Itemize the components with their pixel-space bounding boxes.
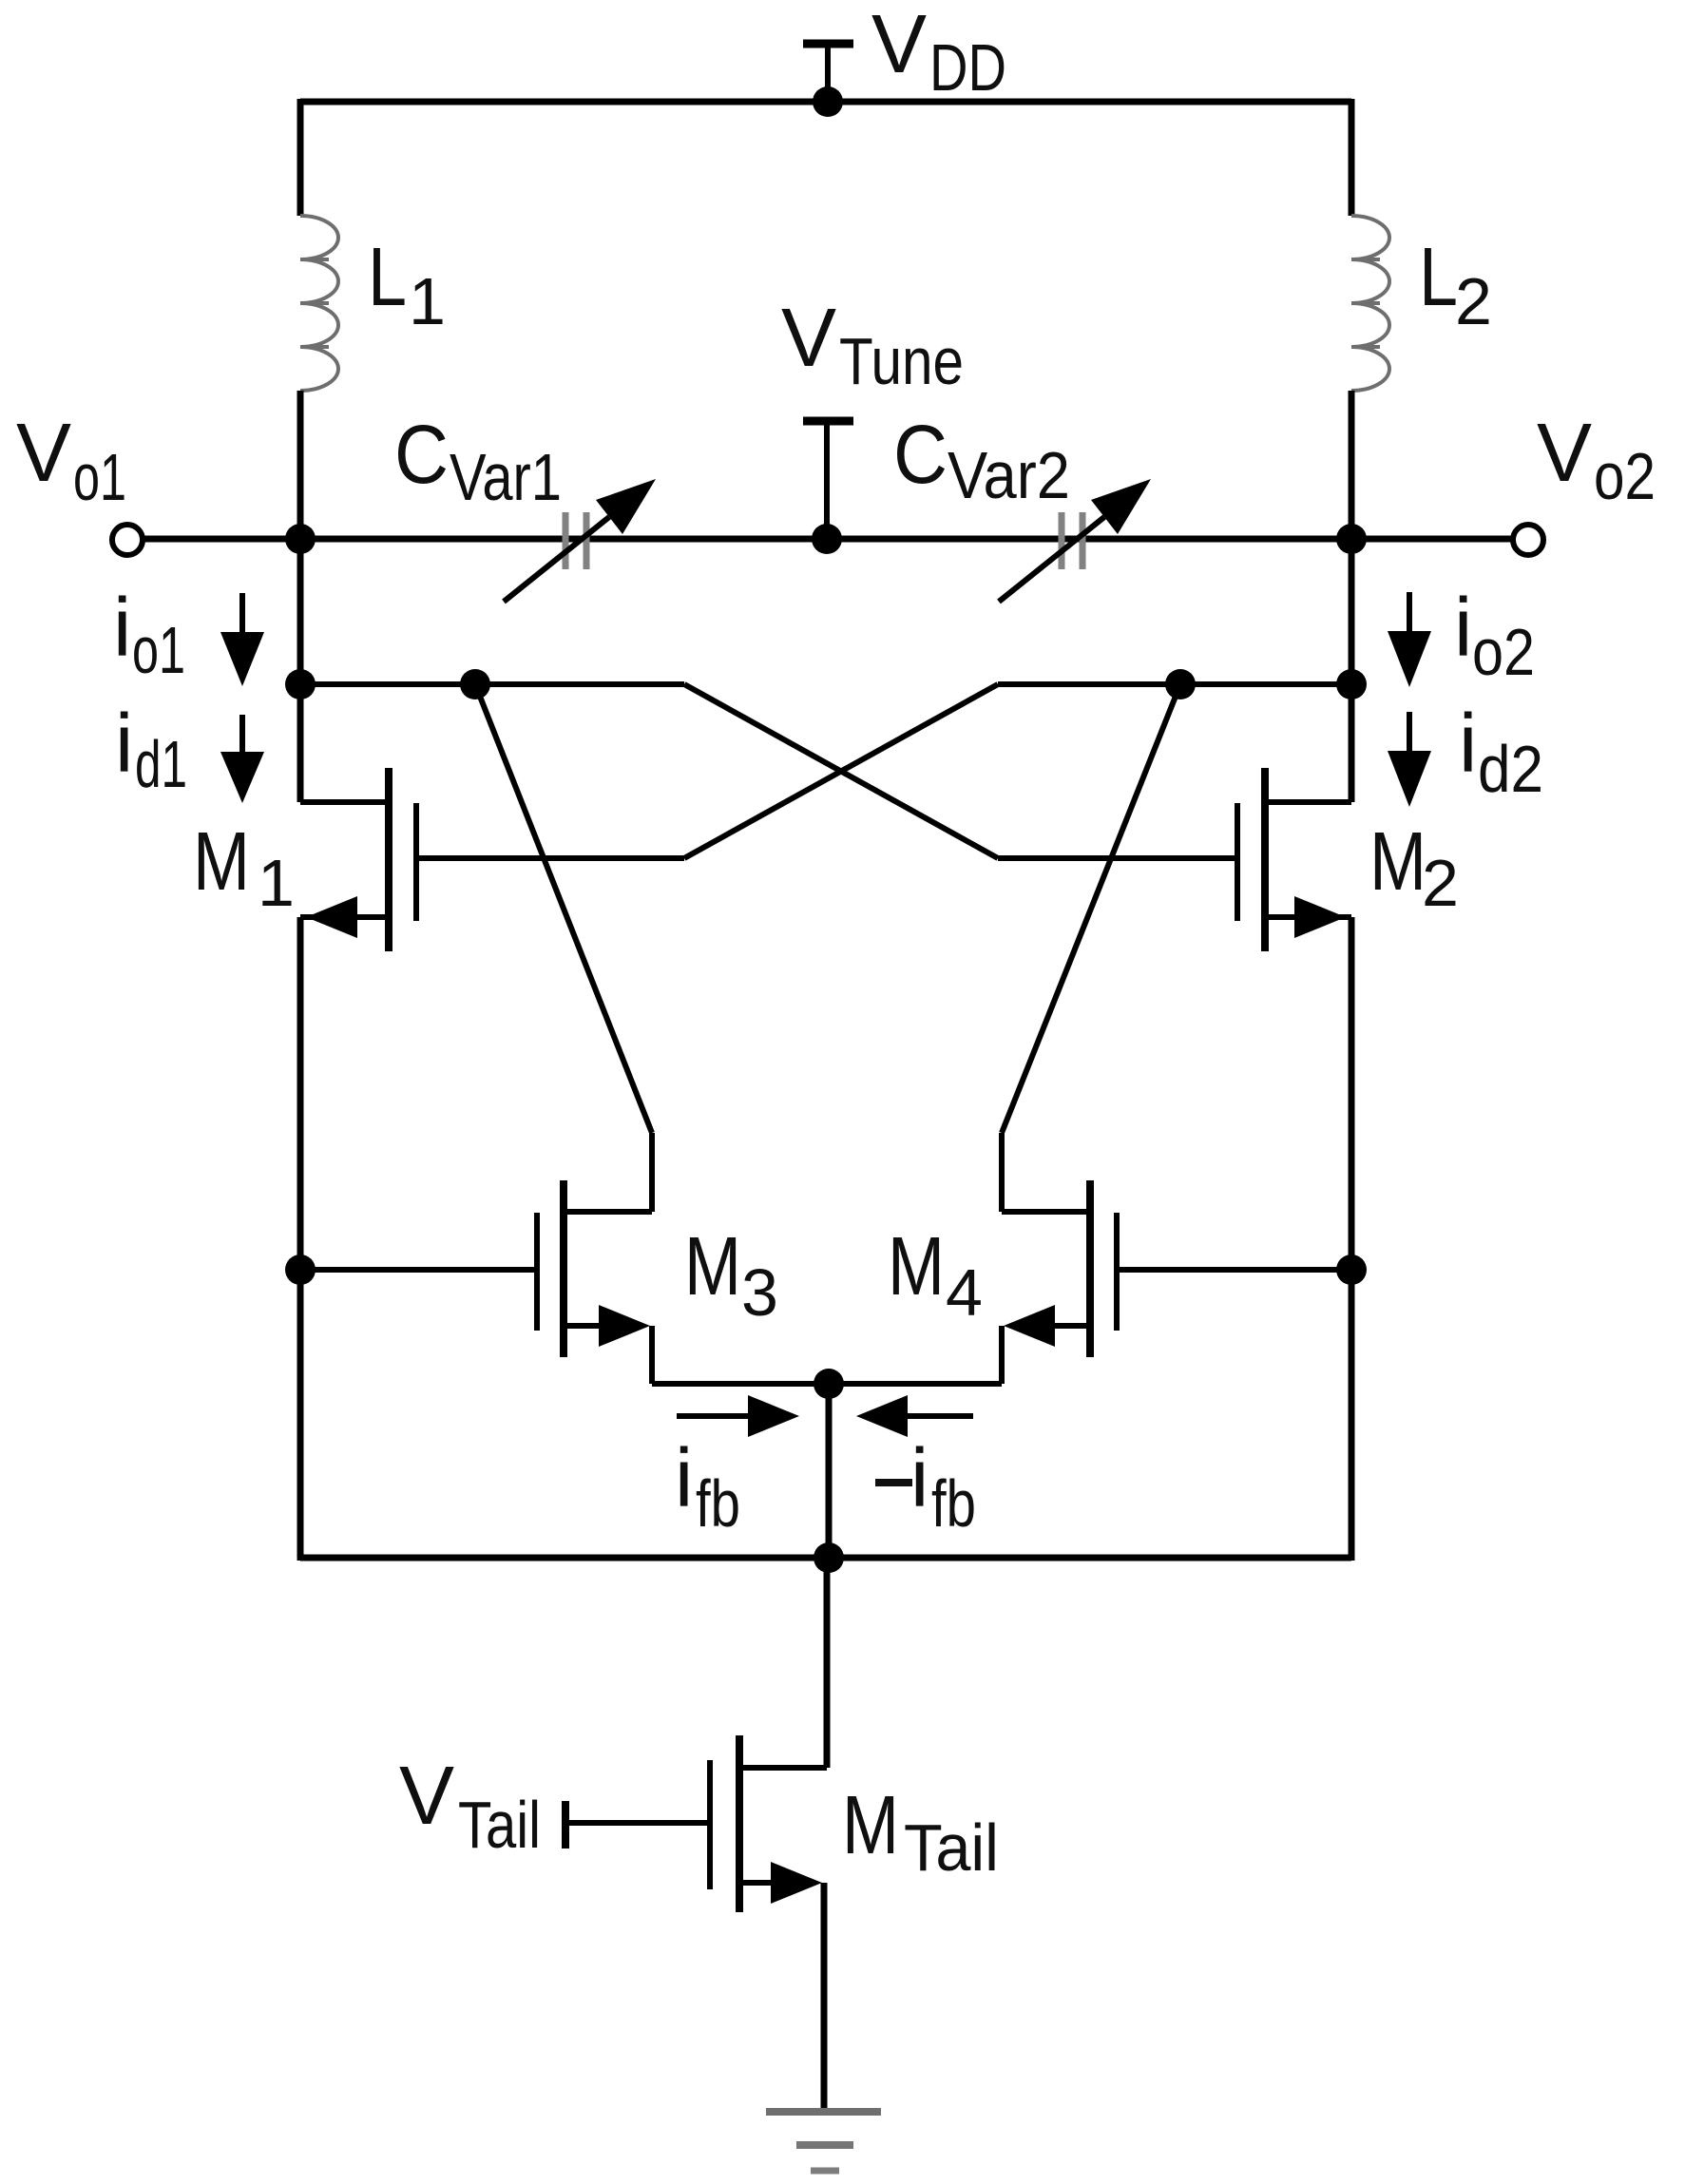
svg-text:Var2: Var2 bbox=[948, 438, 1070, 512]
label L1 bbox=[368, 231, 446, 338]
wire output rail Vo1 to Vo2 bbox=[143, 536, 1513, 543]
svg-text:V: V bbox=[16, 407, 71, 499]
svg-text:L: L bbox=[368, 231, 407, 323]
inductor L2 bbox=[1351, 216, 1389, 391]
svg-text:Tail: Tail bbox=[904, 1810, 999, 1885]
svg-text:3: 3 bbox=[741, 1255, 778, 1330]
label L2 bbox=[1419, 231, 1492, 338]
svg-text:i: i bbox=[1454, 582, 1472, 674]
svg-text:Tune: Tune bbox=[839, 324, 964, 398]
svg-text:Var1: Var1 bbox=[450, 440, 562, 514]
node Vo2 column junction bbox=[1336, 524, 1367, 554]
capacitor CVar1 arrow bbox=[504, 479, 656, 602]
wire drain bus left bbox=[300, 681, 684, 687]
label VTail bbox=[399, 1750, 541, 1862]
node left feedback tap bbox=[460, 669, 490, 699]
wire tail node vertical bbox=[826, 1384, 833, 1558]
wire right branch lower bbox=[1349, 391, 1355, 542]
svg-text:o2: o2 bbox=[1472, 615, 1535, 689]
wire drain bus right bbox=[998, 681, 1351, 687]
inductor L1 bbox=[300, 216, 338, 391]
wire left rail mid bbox=[297, 539, 304, 802]
svg-text:fb: fb bbox=[931, 1466, 976, 1541]
svg-text:i: i bbox=[113, 582, 131, 674]
current arrow io1 bbox=[220, 593, 264, 686]
svg-text:L: L bbox=[1419, 231, 1458, 323]
wire left rail lower bbox=[297, 917, 304, 1561]
transistor M4 bbox=[829, 1180, 1351, 1384]
label CVar2 bbox=[893, 409, 1070, 512]
svg-text:V: V bbox=[399, 1750, 454, 1842]
label Vo1 bbox=[16, 407, 126, 514]
svg-text:d1: d1 bbox=[135, 727, 187, 801]
current arrow ifb bbox=[677, 1395, 799, 1437]
terminal Vo2 bbox=[1513, 525, 1543, 555]
node VTune junction bbox=[812, 524, 842, 554]
svg-text:o2: o2 bbox=[1594, 439, 1656, 513]
node right drain junction bbox=[1336, 669, 1367, 699]
terminal Vo1 bbox=[112, 525, 143, 555]
power symbol VTune bbox=[803, 420, 853, 539]
label M3 bbox=[684, 1220, 778, 1330]
wire tail drain vertical bbox=[824, 1558, 831, 1768]
label M2 bbox=[1369, 815, 1459, 920]
svg-text:o1: o1 bbox=[73, 440, 126, 514]
svg-text:i: i bbox=[1459, 698, 1477, 790]
svg-text:i: i bbox=[910, 1432, 929, 1524]
capacitor CVar2 arrow bbox=[999, 479, 1151, 602]
wire right rail mid bbox=[1349, 539, 1355, 802]
wire feedback diagonal to M4 bbox=[1002, 684, 1180, 1212]
svg-text:4: 4 bbox=[946, 1255, 983, 1330]
label id2 bbox=[1459, 698, 1543, 806]
svg-text:V: V bbox=[781, 292, 836, 384]
node tail top junction bbox=[814, 1369, 844, 1399]
svg-text:M: M bbox=[888, 1220, 945, 1312]
capacitor CVar1 plates bbox=[565, 512, 586, 569]
svg-text:i: i bbox=[675, 1432, 693, 1524]
wire left branch lower bbox=[297, 391, 304, 542]
wire left branch upper bbox=[297, 99, 304, 216]
capacitor CVar2 plates bbox=[1062, 512, 1082, 569]
svg-text:M: M bbox=[842, 1779, 899, 1871]
node M4 gate junction bbox=[1336, 1255, 1367, 1285]
svg-text:i: i bbox=[115, 698, 133, 790]
transistor M2 bbox=[998, 768, 1351, 951]
wire right rail lower bbox=[1349, 917, 1355, 1561]
node Vo1 column junction bbox=[285, 524, 316, 554]
wire right branch upper bbox=[1349, 99, 1355, 216]
label VDD bbox=[871, 0, 1006, 105]
label MTail bbox=[842, 1779, 999, 1885]
svg-text:M: M bbox=[1369, 815, 1427, 908]
current arrow minus ifb bbox=[856, 1395, 973, 1437]
svg-text:1: 1 bbox=[409, 264, 446, 338]
svg-text:1: 1 bbox=[258, 846, 295, 920]
node right feedback tap bbox=[1165, 669, 1196, 699]
node VDD junction bbox=[813, 86, 843, 117]
svg-text:M: M bbox=[684, 1220, 741, 1312]
transistor M3 bbox=[300, 1180, 829, 1384]
svg-text:Tail: Tail bbox=[458, 1788, 541, 1862]
svg-text:M: M bbox=[193, 815, 250, 908]
svg-text:V: V bbox=[871, 0, 927, 90]
node left drain junction bbox=[285, 669, 316, 699]
svg-text:2: 2 bbox=[1455, 264, 1492, 338]
label CVar1 bbox=[394, 409, 562, 514]
node source rail junction bbox=[814, 1542, 844, 1573]
svg-text:o1: o1 bbox=[132, 613, 185, 687]
label M1 bbox=[193, 815, 295, 920]
node M3 gate junction bbox=[285, 1255, 316, 1285]
label M4 bbox=[888, 1220, 983, 1330]
svg-text:C: C bbox=[893, 409, 948, 501]
wire feedback diagonal to M3 bbox=[475, 684, 652, 1212]
label io1 bbox=[113, 582, 185, 687]
svg-text:V: V bbox=[1537, 407, 1592, 499]
current arrow id1 bbox=[220, 715, 264, 803]
label minus ifb bbox=[875, 1432, 976, 1541]
label ifb bbox=[675, 1432, 740, 1541]
svg-text:fb: fb bbox=[696, 1466, 740, 1541]
svg-text:C: C bbox=[394, 409, 449, 501]
ground bbox=[766, 2112, 881, 2171]
transistor MTail bbox=[565, 1735, 827, 2112]
label Vo2 bbox=[1537, 407, 1656, 513]
svg-text:DD: DD bbox=[929, 30, 1006, 105]
transistor M1 bbox=[300, 768, 684, 951]
label id1 bbox=[115, 698, 187, 801]
current arrow id2 bbox=[1388, 712, 1431, 807]
wire cross-couple right drain to M1 gate bbox=[684, 684, 998, 858]
svg-text:d2: d2 bbox=[1478, 732, 1543, 806]
wire cross-couple left drain to M2 gate bbox=[684, 684, 998, 858]
power symbol VDD bbox=[803, 43, 853, 102]
current arrow io2 bbox=[1388, 592, 1431, 687]
wire VDD top rail bbox=[300, 99, 1351, 105]
svg-text:2: 2 bbox=[1422, 846, 1459, 920]
wire source rail bbox=[300, 1555, 1351, 1561]
label io2 bbox=[1454, 582, 1535, 689]
label VTune bbox=[781, 292, 964, 398]
